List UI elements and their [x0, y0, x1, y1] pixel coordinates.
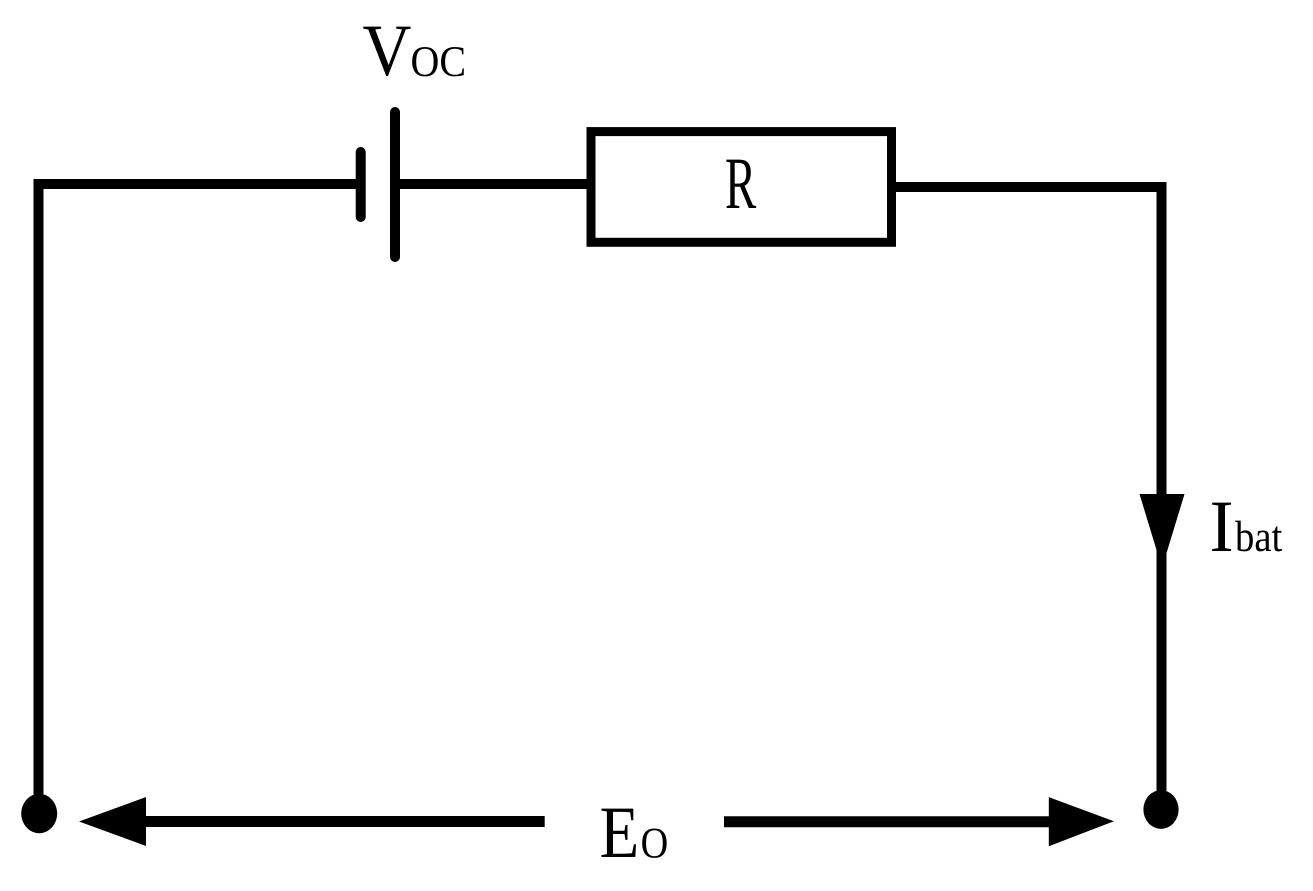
- label Voc: [363, 27, 464, 77]
- label Eo: [601, 809, 666, 858]
- Eo left arrowhead: [79, 797, 146, 846]
- label Ibat: [1212, 503, 1282, 552]
- resistor R box: [591, 132, 892, 243]
- wire: battery to resistor: [395, 179, 591, 189]
- node: right terminal dot: [1143, 790, 1178, 829]
- Eo right arrowhead: [1049, 797, 1114, 846]
- wire: resistor to top-right corner: [895, 182, 1167, 192]
- label R: [726, 160, 756, 208]
- Eo right arrow shaft: [724, 816, 1049, 827]
- current arrowhead Ibat (downward): [1140, 494, 1185, 568]
- Eo left arrow shaft: [145, 816, 545, 827]
- right vertical wire: [1157, 182, 1167, 795]
- left vertical wire: [34, 179, 44, 800]
- battery V1 long plate (positive): [390, 112, 400, 257]
- battery V1 short plate (negative): [356, 152, 366, 217]
- node: left terminal dot: [21, 794, 57, 833]
- wire: top-left horizontal: [34, 179, 357, 189]
